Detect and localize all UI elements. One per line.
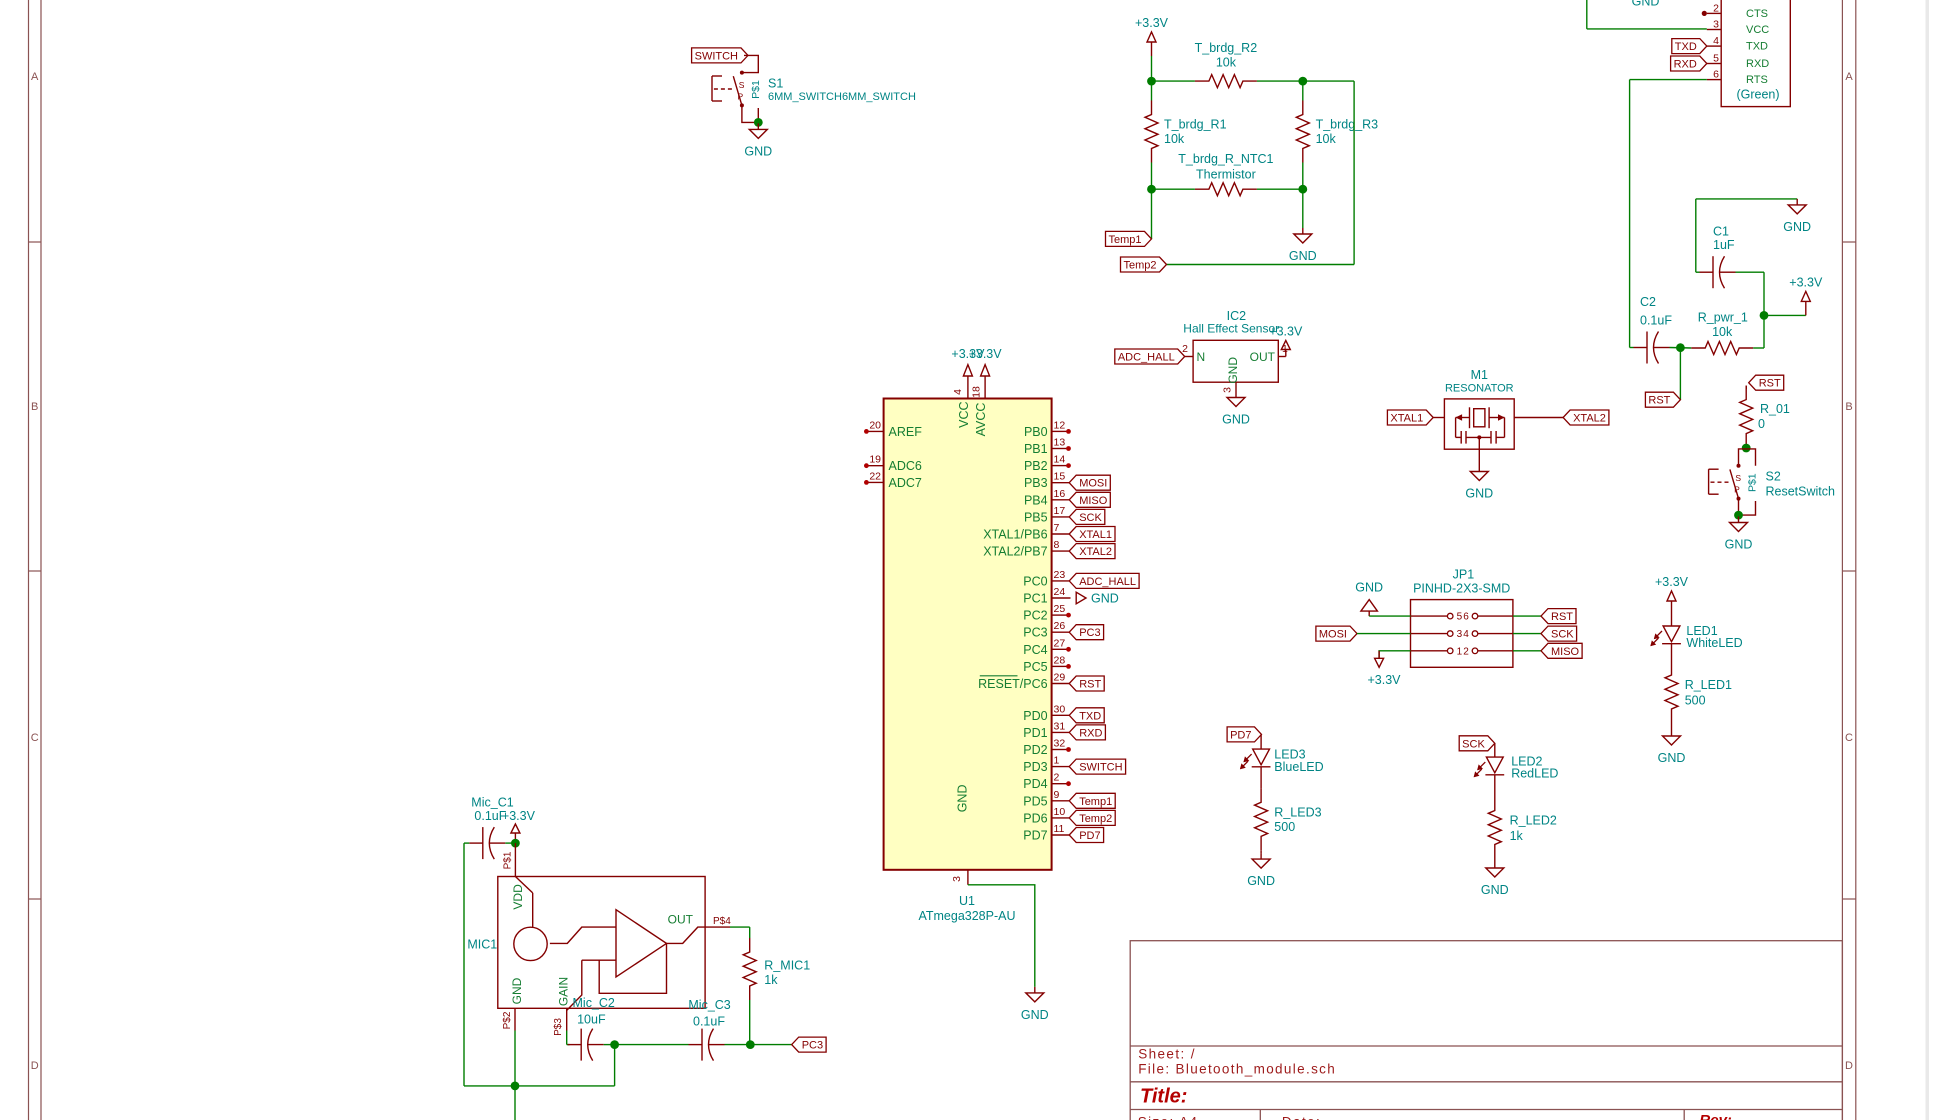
wire bbox=[1302, 189, 1304, 228]
resistor R_MIC1 bbox=[743, 938, 756, 1000]
svg-text:25: 25 bbox=[1054, 603, 1066, 615]
svg-text:Mic_C3: Mic_C3 bbox=[688, 998, 730, 1012]
wire bbox=[1152, 80, 1195, 82]
svg-text:PC3: PC3 bbox=[1023, 626, 1047, 640]
svg-text:N: N bbox=[1197, 350, 1206, 364]
ground bbox=[1478, 466, 1480, 472]
svg-text:VCC: VCC bbox=[1746, 24, 1769, 36]
svg-text:GND: GND bbox=[1222, 413, 1250, 427]
pins 3/4 bbox=[1411, 633, 1448, 635]
svg-text:22: 22 bbox=[869, 470, 881, 482]
svg-text:GND: GND bbox=[1355, 581, 1383, 595]
pin 3 GND bbox=[967, 870, 969, 885]
svg-text:S: S bbox=[739, 80, 745, 90]
svg-text:500: 500 bbox=[1274, 820, 1295, 834]
svg-text:RST: RST bbox=[1551, 611, 1573, 623]
svg-text:3: 3 bbox=[951, 876, 963, 882]
wire bbox=[1257, 188, 1303, 190]
ground bbox=[1738, 517, 1740, 523]
svg-text:ADC_HALL: ADC_HALL bbox=[1118, 352, 1175, 364]
junction bbox=[1734, 511, 1743, 520]
svg-text:D: D bbox=[31, 1060, 39, 1072]
global label RXD bbox=[1069, 725, 1105, 740]
global label XTAL1 bbox=[1069, 527, 1115, 542]
svg-text:GND: GND bbox=[1658, 751, 1686, 765]
svg-text:20: 20 bbox=[869, 419, 881, 431]
svg-text:Temp2: Temp2 bbox=[1079, 813, 1112, 825]
svg-text:RXD: RXD bbox=[1746, 58, 1769, 70]
svg-text:BlueLED: BlueLED bbox=[1274, 760, 1323, 774]
pin 5 RXD bbox=[1707, 63, 1721, 65]
svg-text:Temp2: Temp2 bbox=[1123, 260, 1156, 272]
pin XTAL2 bbox=[1514, 417, 1563, 419]
svg-text:10: 10 bbox=[1054, 806, 1066, 818]
global label MOSI bbox=[1069, 475, 1110, 490]
junction bbox=[1760, 311, 1769, 320]
wire bbox=[1736, 271, 1765, 273]
global label MISO bbox=[1541, 643, 1582, 658]
pin XTAL1 bbox=[1433, 417, 1444, 419]
svg-text:PB0: PB0 bbox=[1024, 425, 1048, 439]
svg-text:M1: M1 bbox=[1471, 368, 1488, 382]
svg-text:PD7: PD7 bbox=[1230, 729, 1251, 741]
svg-text:GND: GND bbox=[1226, 357, 1240, 384]
pin P$1 VDD bbox=[514, 843, 516, 876]
svg-text:C1: C1 bbox=[1713, 225, 1729, 239]
svg-text:T_brdg_R2: T_brdg_R2 bbox=[1195, 41, 1258, 55]
svg-text:B: B bbox=[1845, 401, 1852, 413]
global label Temp1 bbox=[1106, 231, 1152, 246]
wire bbox=[749, 1000, 751, 1045]
pin 18 AVCC bbox=[984, 376, 986, 399]
svg-text:27: 27 bbox=[1054, 637, 1066, 649]
svg-text:TXD: TXD bbox=[1079, 710, 1101, 722]
resistor T_brdg_R2 bbox=[1195, 75, 1257, 88]
svg-text:10k: 10k bbox=[1712, 325, 1733, 339]
svg-text:PD0: PD0 bbox=[1023, 709, 1047, 723]
resistor T_brdg_R3 bbox=[1296, 101, 1309, 163]
global label RST bbox=[1541, 609, 1576, 624]
global label TXD bbox=[1069, 708, 1104, 723]
svg-text:Size: A4: Size: A4 bbox=[1138, 1115, 1199, 1120]
wire internals bbox=[550, 927, 616, 943]
svg-text:4: 4 bbox=[1463, 629, 1469, 640]
junction bbox=[1742, 444, 1751, 453]
svg-text:GND: GND bbox=[1632, 0, 1660, 9]
svg-text:T_brdg_R_NTC1: T_brdg_R_NTC1 bbox=[1178, 152, 1273, 166]
svg-text:PD7: PD7 bbox=[1079, 830, 1100, 842]
svg-text:2: 2 bbox=[1054, 772, 1060, 784]
svg-text:+3.3V: +3.3V bbox=[502, 809, 536, 823]
svg-text:PD5: PD5 bbox=[1023, 794, 1047, 808]
svg-text:XTAL2: XTAL2 bbox=[1573, 413, 1606, 425]
svg-text:24: 24 bbox=[1054, 586, 1066, 598]
global label RST bbox=[1749, 375, 1784, 390]
svg-text:GND: GND bbox=[1465, 487, 1493, 501]
global label SWITCH bbox=[1069, 759, 1125, 774]
wire bbox=[742, 105, 758, 122]
wire bbox=[1753, 347, 1764, 349]
svg-text:+3.3V: +3.3V bbox=[1269, 325, 1303, 339]
wire bbox=[1630, 347, 1634, 349]
junction bbox=[1298, 185, 1307, 194]
svg-text:17: 17 bbox=[1054, 505, 1066, 517]
svg-text:MISO: MISO bbox=[1079, 495, 1108, 507]
pin 4 VCC bbox=[967, 376, 969, 399]
capacitor C1 bbox=[1700, 271, 1714, 273]
global label PC3 bbox=[1069, 625, 1103, 640]
pin 1 OUT bbox=[1278, 356, 1286, 358]
wire bbox=[1353, 81, 1355, 264]
svg-text:PC5: PC5 bbox=[1023, 660, 1047, 674]
svg-text:0.1uF: 0.1uF bbox=[693, 1014, 725, 1028]
svg-text:R_LED2: R_LED2 bbox=[1510, 814, 1557, 828]
svg-text:TXD: TXD bbox=[1675, 41, 1697, 53]
svg-text:12: 12 bbox=[1054, 419, 1066, 431]
svg-text:PD3: PD3 bbox=[1023, 760, 1047, 774]
pin 2 N bbox=[1185, 356, 1193, 358]
svg-text:ADC_HALL: ADC_HALL bbox=[1079, 576, 1136, 588]
wire bbox=[1494, 859, 1496, 863]
svg-text:500: 500 bbox=[1685, 694, 1706, 708]
wire bbox=[614, 1045, 616, 1086]
svg-text:VCC: VCC bbox=[957, 401, 971, 427]
junction bbox=[1298, 77, 1307, 86]
wire bbox=[1151, 163, 1153, 190]
global label XTAL2 bbox=[1563, 410, 1609, 425]
svg-text:6MM_SWITCH6MM_SWITCH: 6MM_SWITCH6MM_SWITCH bbox=[768, 91, 916, 103]
svg-text:S: S bbox=[1735, 473, 1741, 483]
svg-text:RXD: RXD bbox=[1674, 59, 1697, 71]
svg-text:R_pwr_1: R_pwr_1 bbox=[1698, 311, 1748, 325]
wire bbox=[1151, 81, 1153, 100]
svg-text:Hall Effect Sensor: Hall Effect Sensor bbox=[1183, 322, 1279, 336]
wire bbox=[1369, 615, 1410, 617]
pin P$2 GND bbox=[514, 1008, 516, 1030]
wire bbox=[1739, 449, 1756, 466]
svg-text:1k: 1k bbox=[1510, 829, 1524, 843]
wire bbox=[742, 55, 758, 72]
svg-text:AVCC: AVCC bbox=[974, 403, 988, 437]
ground bbox=[1235, 392, 1237, 398]
hall effect sensor IC2 bbox=[1193, 340, 1278, 382]
wire bbox=[1513, 650, 1541, 652]
wire bbox=[514, 1086, 516, 1120]
svg-text:GND: GND bbox=[1021, 1008, 1049, 1022]
svg-text:29: 29 bbox=[1054, 672, 1066, 684]
capacitor Mic_C3 bbox=[689, 1044, 703, 1046]
svg-text:PB3: PB3 bbox=[1024, 476, 1048, 490]
power +3.3V bbox=[1285, 350, 1287, 357]
svg-text:RESONATOR: RESONATOR bbox=[1445, 383, 1514, 395]
junction bbox=[1147, 185, 1156, 194]
svg-text:SCK: SCK bbox=[1079, 512, 1102, 524]
svg-text:D: D bbox=[1845, 1060, 1853, 1072]
IC U1 ATmega328P-AU bbox=[884, 399, 1052, 870]
svg-text:RST: RST bbox=[1759, 378, 1781, 390]
svg-text:2: 2 bbox=[1463, 646, 1469, 657]
switch S1 bbox=[740, 71, 744, 75]
svg-text:10k: 10k bbox=[1216, 56, 1237, 70]
svg-text:RXD: RXD bbox=[1079, 727, 1102, 739]
resistor R_01 bbox=[1740, 386, 1753, 448]
pin GND bbox=[1478, 437, 1480, 465]
wire bbox=[750, 1044, 791, 1046]
wire bbox=[1257, 80, 1303, 82]
svg-text:P$2: P$2 bbox=[502, 1011, 513, 1029]
svg-text:10k: 10k bbox=[1316, 132, 1337, 146]
pins 5/6 bbox=[1411, 615, 1448, 617]
svg-text:0: 0 bbox=[1758, 417, 1765, 431]
svg-text:GND: GND bbox=[510, 977, 524, 1004]
svg-text:Mic_C1: Mic_C1 bbox=[471, 796, 513, 810]
svg-text:10uF: 10uF bbox=[577, 1013, 606, 1027]
svg-text:ResetSwitch: ResetSwitch bbox=[1766, 485, 1836, 499]
thermistor T_brdg_R_NTC1 bbox=[1195, 183, 1257, 196]
capacitor C2 bbox=[1634, 347, 1648, 349]
svg-text:4: 4 bbox=[1713, 35, 1719, 47]
svg-text:GND: GND bbox=[1247, 874, 1275, 888]
global label MOSI bbox=[1316, 626, 1357, 641]
wire bbox=[1586, 0, 1588, 29]
resistor R_LED3 bbox=[1255, 788, 1268, 850]
svg-text:1uF: 1uF bbox=[1713, 238, 1735, 252]
global label Temp2 bbox=[1121, 257, 1167, 272]
junction bbox=[1147, 77, 1156, 86]
pin 4 TXD bbox=[1707, 45, 1721, 47]
svg-text:S1: S1 bbox=[768, 77, 783, 91]
wire bbox=[1302, 163, 1304, 190]
svg-text:File: Bluetooth_module.sch: File: Bluetooth_module.sch bbox=[1138, 1062, 1336, 1077]
svg-text:GND: GND bbox=[1091, 592, 1119, 606]
svg-text:R_LED1: R_LED1 bbox=[1685, 678, 1732, 692]
resistor R_LED2 bbox=[1488, 797, 1501, 859]
svg-text:0.1uF: 0.1uF bbox=[1640, 314, 1672, 328]
resonator M1 bbox=[1444, 399, 1514, 449]
global label RST bbox=[1645, 392, 1680, 407]
pin P$4 bbox=[705, 926, 730, 928]
svg-text:PC0: PC0 bbox=[1023, 574, 1047, 588]
LED LED1 WhiteLED bbox=[1671, 601, 1673, 626]
pin 2 CTS bbox=[1707, 12, 1721, 14]
svg-text:MOSI: MOSI bbox=[1079, 478, 1107, 490]
capacitor Mic_C2 bbox=[568, 1044, 582, 1046]
wire bbox=[1260, 767, 1262, 789]
svg-text:SWITCH: SWITCH bbox=[695, 50, 738, 62]
svg-text:XTAL1/PB6: XTAL1/PB6 bbox=[983, 528, 1047, 542]
svg-text:Mic_C2: Mic_C2 bbox=[573, 996, 615, 1010]
svg-text:19: 19 bbox=[869, 454, 881, 466]
svg-text:10k: 10k bbox=[1164, 132, 1185, 146]
svg-text:1k: 1k bbox=[764, 973, 778, 987]
pin 3 VCC bbox=[1707, 29, 1721, 31]
svg-text:P: P bbox=[737, 92, 743, 102]
svg-text:PD7: PD7 bbox=[1023, 829, 1047, 843]
wire bbox=[1763, 315, 1765, 348]
ground bbox=[1671, 730, 1673, 736]
power +3.3V (down) bbox=[1378, 651, 1380, 659]
svg-text:26: 26 bbox=[1054, 620, 1066, 632]
svg-text:Thermistor: Thermistor bbox=[1196, 168, 1256, 182]
pin 6 RTS bbox=[1707, 79, 1721, 81]
wire RTS bbox=[1630, 79, 1707, 81]
svg-text:+3.3V: +3.3V bbox=[1367, 673, 1401, 687]
global label PD7 bbox=[1069, 828, 1103, 843]
wire bbox=[566, 1031, 568, 1045]
svg-text:1: 1 bbox=[1054, 755, 1060, 767]
junction bbox=[754, 118, 763, 127]
svg-text:R_01: R_01 bbox=[1760, 402, 1790, 416]
global label TXD bbox=[1672, 39, 1707, 54]
svg-text:2: 2 bbox=[1182, 343, 1188, 355]
svg-text:P: P bbox=[1734, 485, 1740, 495]
svg-text:T_brdg_R1: T_brdg_R1 bbox=[1164, 118, 1227, 132]
svg-text:11: 11 bbox=[1054, 823, 1065, 835]
svg-text:PC1: PC1 bbox=[1023, 592, 1047, 606]
svg-text:GND: GND bbox=[1289, 249, 1317, 263]
svg-text:PC4: PC4 bbox=[1023, 643, 1047, 657]
wire bbox=[1302, 81, 1304, 100]
svg-text:23: 23 bbox=[1054, 569, 1066, 581]
wire bbox=[1513, 615, 1541, 617]
global label ADC_HALL bbox=[1115, 349, 1185, 364]
svg-text:PINHD-2X3-SMD: PINHD-2X3-SMD bbox=[1413, 582, 1510, 596]
svg-text:PC2: PC2 bbox=[1023, 609, 1047, 623]
power +3.3V bbox=[1151, 42, 1153, 56]
junction bbox=[1676, 343, 1685, 352]
svg-text:GND: GND bbox=[1725, 538, 1753, 552]
svg-text:PB5: PB5 bbox=[1024, 510, 1048, 524]
svg-text:+3.3V: +3.3V bbox=[969, 347, 1003, 361]
switch S2 bbox=[1737, 464, 1741, 468]
svg-text:PD2: PD2 bbox=[1023, 743, 1047, 757]
mic element bbox=[515, 877, 532, 893]
junction bbox=[610, 1040, 619, 1049]
svg-text:Rev:: Rev: bbox=[1699, 1112, 1732, 1120]
resistor R_LED1 bbox=[1665, 661, 1678, 723]
svg-text:MISO: MISO bbox=[1551, 646, 1580, 658]
svg-text:PB4: PB4 bbox=[1024, 493, 1048, 507]
svg-text:GAIN: GAIN bbox=[556, 977, 570, 1006]
connector JP1 PINHD-2X3-SMD bbox=[1411, 600, 1513, 668]
svg-text:TXD: TXD bbox=[1746, 41, 1768, 53]
svg-text:P$4: P$4 bbox=[713, 916, 731, 927]
power +3.3V bbox=[514, 833, 516, 843]
svg-text:GND: GND bbox=[744, 144, 772, 158]
svg-text:C: C bbox=[31, 732, 39, 744]
wire bbox=[1696, 271, 1700, 273]
svg-text:WhiteLED: WhiteLED bbox=[1686, 636, 1742, 650]
wire bbox=[615, 1044, 689, 1046]
svg-text:PD1: PD1 bbox=[1023, 726, 1047, 740]
pin 20 AREF bbox=[867, 430, 884, 432]
wire bbox=[968, 885, 1035, 987]
pin 22 ADC7 bbox=[867, 481, 884, 483]
wire bbox=[1670, 347, 1692, 350]
svg-text:Date:: Date: bbox=[1282, 1115, 1321, 1120]
svg-text:R_MIC1: R_MIC1 bbox=[764, 959, 810, 973]
wire bbox=[1152, 188, 1195, 190]
global label MISO bbox=[1069, 492, 1110, 507]
svg-text:PD4: PD4 bbox=[1023, 777, 1047, 791]
svg-text:T_brdg_R3: T_brdg_R3 bbox=[1316, 118, 1379, 132]
svg-text:CTS: CTS bbox=[1746, 8, 1768, 20]
svg-text:P$3: P$3 bbox=[553, 1018, 564, 1036]
wire bbox=[505, 842, 515, 844]
pin 3 GND bbox=[1235, 382, 1237, 391]
wire bbox=[604, 1044, 615, 1046]
wire bbox=[1151, 56, 1153, 81]
svg-text:OUT: OUT bbox=[668, 913, 694, 927]
svg-text:PC3: PC3 bbox=[1079, 627, 1100, 639]
svg-text:13: 13 bbox=[1054, 437, 1066, 449]
svg-text:PD6: PD6 bbox=[1023, 811, 1047, 825]
svg-text:+3.3V: +3.3V bbox=[1655, 575, 1689, 589]
svg-text:(Green): (Green) bbox=[1736, 88, 1779, 102]
svg-text:RST: RST bbox=[1079, 679, 1101, 691]
svg-text:PC3: PC3 bbox=[802, 1040, 823, 1052]
LED LED3 BlueLED bbox=[1260, 734, 1262, 749]
ground bbox=[1260, 853, 1262, 859]
ground bbox=[1796, 199, 1798, 205]
global label RXD bbox=[1671, 56, 1707, 71]
svg-text:8: 8 bbox=[1054, 539, 1060, 551]
title block bbox=[1130, 941, 1842, 1120]
svg-text:RedLED: RedLED bbox=[1511, 767, 1558, 781]
global label SCK bbox=[1069, 509, 1105, 524]
pin P$3 GAIN bbox=[566, 1008, 568, 1030]
svg-text:9: 9 bbox=[1054, 789, 1060, 801]
svg-text:3: 3 bbox=[1222, 387, 1234, 393]
svg-text:Sheet: /: Sheet: / bbox=[1138, 1047, 1196, 1062]
svg-text:6: 6 bbox=[1463, 612, 1469, 623]
global label XTAL2 bbox=[1069, 544, 1115, 559]
output wire bbox=[667, 927, 706, 943]
svg-text:XTAL1: XTAL1 bbox=[1079, 529, 1112, 541]
LED LED2 RedLED bbox=[1494, 743, 1496, 757]
svg-text:Temp1: Temp1 bbox=[1108, 234, 1141, 246]
connector J1 (Green) bbox=[1721, 0, 1790, 107]
svg-text:R_LED3: R_LED3 bbox=[1274, 806, 1321, 820]
wire bbox=[1260, 850, 1262, 853]
svg-text:B: B bbox=[31, 401, 38, 413]
global label PD7 bbox=[1227, 727, 1261, 742]
svg-text:30: 30 bbox=[1054, 703, 1066, 715]
svg-text:3: 3 bbox=[1713, 19, 1719, 31]
resistor R_pwr_1 bbox=[1691, 342, 1753, 355]
svg-text:5: 5 bbox=[1713, 53, 1719, 65]
svg-text:4: 4 bbox=[952, 389, 964, 395]
svg-text:GND: GND bbox=[1481, 883, 1509, 897]
global label ADC_HALL bbox=[1069, 573, 1139, 588]
svg-text:6: 6 bbox=[1713, 69, 1719, 81]
pin 19 ADC6 bbox=[867, 465, 884, 467]
ground bbox=[757, 123, 759, 129]
svg-text:JP1: JP1 bbox=[1453, 568, 1475, 582]
wire bbox=[1671, 644, 1673, 661]
junction bbox=[746, 1040, 755, 1049]
svg-text:ATmega328P-AU: ATmega328P-AU bbox=[918, 909, 1015, 923]
svg-text:3: 3 bbox=[1457, 629, 1463, 640]
svg-text:MIC1: MIC1 bbox=[467, 938, 497, 952]
wire bbox=[1513, 633, 1541, 635]
wire bbox=[514, 1031, 516, 1086]
svg-text:28: 28 bbox=[1054, 654, 1066, 666]
global label Temp2 bbox=[1069, 810, 1115, 825]
svg-text:PB2: PB2 bbox=[1024, 459, 1048, 473]
svg-text:RESET/PC6: RESET/PC6 bbox=[978, 677, 1048, 691]
resistor T_brdg_R1 bbox=[1145, 101, 1158, 163]
